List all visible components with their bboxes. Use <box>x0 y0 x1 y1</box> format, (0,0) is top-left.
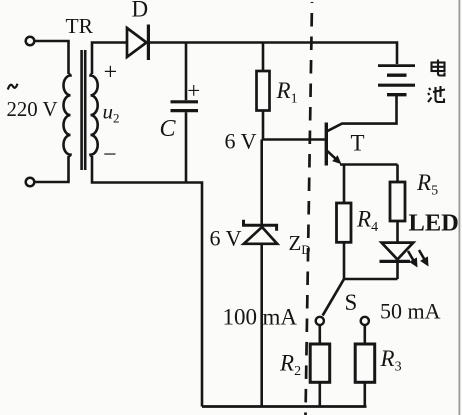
svg-text:6 V: 6 V <box>210 226 242 251</box>
switch contact right <box>361 317 369 325</box>
svg-text:−: − <box>103 142 117 168</box>
wire bottom ground rail <box>202 405 367 408</box>
wire right contact to R3 <box>363 325 366 344</box>
wire LED bottom to switch common <box>396 261 399 279</box>
transistor T collector <box>327 96 397 131</box>
resistor R5 <box>390 182 405 221</box>
wire capacitor top branch <box>185 43 188 101</box>
transistor T emitter <box>327 151 339 162</box>
wire secondary top to diode anode <box>92 43 127 75</box>
wire R1 top <box>262 43 265 72</box>
svg-text:220 V: 220 V <box>7 98 58 121</box>
label battery 池 <box>428 86 445 102</box>
wire primary bottom to terminal <box>34 156 68 182</box>
svg-text:TR: TR <box>66 14 94 38</box>
wire 6V node to transistor base <box>262 138 325 141</box>
battery plate short <box>387 73 407 76</box>
LED light arrow 1 <box>408 251 413 260</box>
capacitor C plates <box>171 100 199 103</box>
dashed separation line <box>306 2 313 415</box>
svg-text:T: T <box>351 131 365 156</box>
wire diode cathode to battery top <box>150 43 397 65</box>
switch S blade <box>323 279 344 316</box>
terminal top-left <box>26 37 35 46</box>
svg-text:C: C <box>160 116 177 142</box>
svg-text:100: 100 <box>223 305 258 330</box>
zener diode ZD cathode bar <box>244 220 277 231</box>
wire R5 top <box>396 165 399 183</box>
wire switch common horizontal <box>344 278 398 281</box>
wire R5 bottom to LED <box>396 221 399 242</box>
LED light arrow 2 <box>419 250 424 259</box>
svg-text:+: + <box>104 59 118 85</box>
transistor T base bar <box>325 123 328 166</box>
resistor R3 <box>355 344 375 382</box>
wire left contact to R2 <box>318 325 321 344</box>
diode D <box>127 28 147 57</box>
svg-text:D: D <box>132 0 149 22</box>
battery plate long <box>378 84 415 87</box>
wire R2 bottom to rail <box>318 382 321 406</box>
zener diode ZD triangle <box>244 227 277 244</box>
label ~ <box>8 84 18 90</box>
terminal bottom-left <box>26 178 35 187</box>
svg-text:S: S <box>345 290 358 315</box>
wire 6V node down to zener <box>260 140 263 225</box>
resistor R4 <box>337 203 352 242</box>
battery plate short bottom <box>387 93 407 96</box>
svg-text:mA: mA <box>263 305 298 330</box>
transformer core bars <box>80 50 83 170</box>
LED cathode bar <box>380 260 411 263</box>
transformer secondary winding <box>91 74 98 156</box>
svg-text:6 V: 6 V <box>225 129 257 154</box>
label battery 电 <box>432 60 445 76</box>
transistor T emitter arrowhead <box>332 155 341 164</box>
svg-text:50 mA: 50 mA <box>380 299 441 324</box>
wire capacitor bottom branch <box>185 112 188 182</box>
wire top-left terminal to transformer primary <box>34 41 68 74</box>
switch contact left <box>316 317 324 325</box>
battery plate long top <box>378 64 415 67</box>
svg-text:LED: LED <box>409 210 459 237</box>
wire zener anode to ground rail <box>260 244 263 407</box>
wire emitter node down to R4 <box>343 165 346 204</box>
wire R4 bottom to switch common <box>343 242 346 279</box>
resistor R2 <box>310 344 330 382</box>
wire R1 bottom to 6V node <box>262 111 265 140</box>
page border line right <box>458 0 460 415</box>
wire secondary bottom rail <box>92 156 202 407</box>
svg-text:+: + <box>187 78 200 103</box>
LED triangle <box>382 243 414 260</box>
wire emitter node to R5 branch <box>340 163 398 166</box>
transformer TR primary winding <box>64 74 71 156</box>
wire R3 bottom to rail <box>363 382 366 406</box>
resistor R1 <box>257 71 270 111</box>
